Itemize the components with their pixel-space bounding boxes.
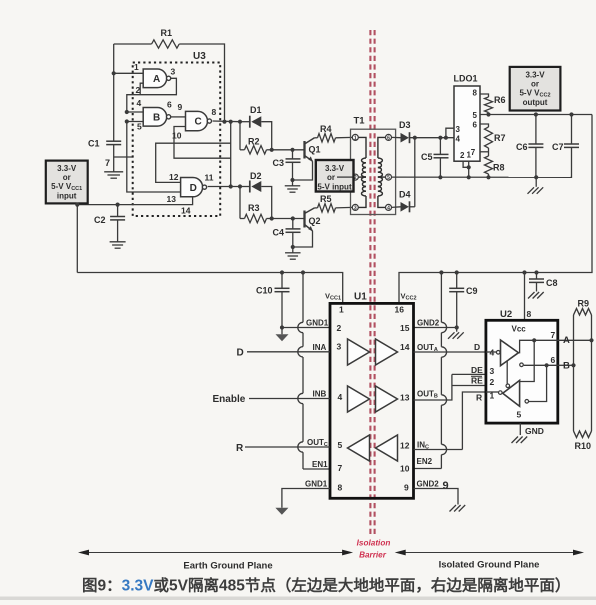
node junction A term xyxy=(589,338,593,342)
svg-text:14: 14 xyxy=(181,206,191,216)
node junction emitter Q1 xyxy=(290,178,294,182)
svg-text:C7: C7 xyxy=(552,142,564,152)
svg-text:2: 2 xyxy=(337,323,342,333)
capacitor C2 xyxy=(110,216,125,218)
wire Q2 emitter to gnd xyxy=(293,231,313,247)
wire left vertical from top rail to C1 xyxy=(113,44,115,141)
svg-text:R: R xyxy=(476,393,482,403)
resistor R7 xyxy=(485,127,493,148)
wire C3 gnd stub xyxy=(292,180,294,186)
wire R2 stub right xyxy=(267,149,272,151)
wire C9 bottom lead xyxy=(456,292,458,328)
svg-text:16: 16 xyxy=(395,305,405,315)
wire VCC2 right rail xyxy=(399,115,592,304)
svg-text:1: 1 xyxy=(467,151,472,160)
wire R5 to T1 pin3 xyxy=(336,206,353,209)
wire R7-R8 junction xyxy=(488,148,490,156)
resistor R10 xyxy=(574,431,592,438)
resistor R1 xyxy=(152,40,180,48)
node junction C3 tap xyxy=(290,148,294,152)
svg-text:D2: D2 xyxy=(250,171,262,181)
U2 box xyxy=(486,320,558,423)
T1 pin circles xyxy=(352,134,358,140)
wire D1 cathode lead xyxy=(240,121,250,123)
3.3-V/5-V VCC2 output box xyxy=(510,67,561,111)
svg-text:GND1: GND1 xyxy=(306,319,329,328)
svg-text:Isolated Ground Plane: Isolated Ground Plane xyxy=(439,560,540,571)
resistor R9 xyxy=(574,309,592,316)
diode D2 xyxy=(249,181,251,193)
wire U2 gnd xyxy=(519,423,521,435)
node junction B riser xyxy=(545,363,549,367)
resistor R4 xyxy=(318,134,336,142)
wire A bus xyxy=(558,339,592,341)
svg-text:C4: C4 xyxy=(273,228,285,238)
svg-text:9: 9 xyxy=(404,483,409,493)
ground for C2 xyxy=(110,241,126,243)
wire DE xyxy=(452,373,507,375)
svg-text:1: 1 xyxy=(134,62,139,72)
svg-text:U2: U2 xyxy=(500,309,512,320)
wire gate B output 6 to gate C input 9 xyxy=(170,116,185,118)
svg-text:C2: C2 xyxy=(94,215,106,225)
wire gate B input 5 xyxy=(127,121,143,123)
svg-text:5: 5 xyxy=(137,122,142,132)
wire C8 bottom lead xyxy=(536,282,538,291)
node junction LDO gnd xyxy=(467,175,471,179)
wire GND1 pin8 xyxy=(282,489,330,508)
wire LDO pin1 xyxy=(468,161,470,177)
svg-text:3.3-V: 3.3-V xyxy=(57,164,77,173)
capacitor C5 xyxy=(434,153,449,155)
wire R2 stub left xyxy=(240,149,245,151)
svg-text:3: 3 xyxy=(337,342,342,352)
T1 primary winding xyxy=(358,137,366,207)
node junction C5 top xyxy=(438,136,442,140)
node junction A riser xyxy=(532,338,536,342)
wire top rail with R1 left segment xyxy=(114,43,152,45)
wire C4 gnd stub xyxy=(292,247,294,253)
svg-text:13: 13 xyxy=(400,393,410,403)
ground C10 triangle xyxy=(281,328,283,335)
wire LDO pin7 xyxy=(480,151,489,153)
node junction C2 tap xyxy=(116,203,120,207)
3.3-V/5-V input box xyxy=(316,160,354,192)
wire D2 cathode lead xyxy=(240,186,250,188)
wire R out of U2 xyxy=(462,392,486,450)
ground pin15 xyxy=(456,328,458,332)
svg-text:INA: INA xyxy=(313,343,327,352)
svg-text:input: input xyxy=(57,192,77,201)
svg-text:C10: C10 xyxy=(256,286,273,296)
wire pin 14 from gate D bottom xyxy=(77,197,192,205)
wire EN1 vertical xyxy=(302,273,304,323)
svg-text:12: 12 xyxy=(400,441,410,451)
wire C5 bottom lead xyxy=(439,158,441,178)
resistor R6 xyxy=(485,97,493,113)
svg-text:5: 5 xyxy=(387,175,390,181)
node junction C9 top xyxy=(455,270,459,274)
ground for C4 xyxy=(285,252,301,254)
svg-text:C9: C9 xyxy=(466,286,478,296)
wire C10 bottom lead xyxy=(281,292,283,328)
wire gate A feedback output 3 to input 2 xyxy=(127,78,177,112)
svg-text:10: 10 xyxy=(400,464,410,474)
node junction pin4 xyxy=(125,110,129,114)
wire enable vertical U2 xyxy=(506,361,508,384)
svg-text:8: 8 xyxy=(527,309,532,319)
node junction D2 branch xyxy=(238,184,242,188)
svg-text:3.3-V: 3.3-V xyxy=(525,71,545,80)
svg-text:Enable: Enable xyxy=(213,394,246,405)
wire D inside U2 xyxy=(486,351,496,353)
ground for C6 xyxy=(528,187,535,194)
svg-text:9: 9 xyxy=(443,480,449,492)
wire C2 leads xyxy=(117,205,119,217)
svg-text:B: B xyxy=(563,361,570,372)
svg-text:8: 8 xyxy=(212,107,217,117)
gate A of U3 xyxy=(143,69,167,88)
wire R3 left branch xyxy=(239,187,241,219)
wire R6 bottom xyxy=(488,113,490,115)
wire C10 top lead xyxy=(281,273,283,289)
svg-text:4: 4 xyxy=(338,392,343,402)
wire VCC1 down from input box xyxy=(76,205,78,273)
svg-text:9: 9 xyxy=(178,102,183,112)
svg-text:3: 3 xyxy=(490,366,495,376)
gate B of U3 xyxy=(143,108,167,127)
node junction 11-line xyxy=(229,184,233,188)
wire A to receiver xyxy=(520,340,535,381)
capacitor C9 xyxy=(449,287,464,289)
wire C6 bottom lead xyxy=(535,147,537,177)
svg-text:5-V input: 5-V input xyxy=(317,182,352,191)
U2 receiver B input bubble xyxy=(525,400,529,404)
wire gate A input 2 stub xyxy=(140,83,143,95)
ground GND1 pin8 triangle xyxy=(275,508,288,515)
svg-text:7: 7 xyxy=(471,148,476,157)
gate C of U3 xyxy=(186,111,208,130)
resistor R2 xyxy=(245,146,267,154)
U2 receiver triangle xyxy=(503,380,520,406)
svg-text:3: 3 xyxy=(456,125,461,134)
svg-text:C6: C6 xyxy=(516,142,528,152)
wire D1 anode to corner xyxy=(261,122,271,150)
svg-text:14: 14 xyxy=(400,342,410,352)
svg-text:LDO1: LDO1 xyxy=(454,74,478,84)
node junction input box xyxy=(75,203,79,207)
ground GND2 pin9 xyxy=(450,505,457,512)
svg-text:R9: R9 xyxy=(578,299,590,309)
node junction C4 tap xyxy=(291,216,295,220)
wire B to receiver xyxy=(529,365,547,401)
svg-text:R3: R3 xyxy=(248,203,260,213)
capacitor C8 xyxy=(529,278,544,280)
svg-text:EN2: EN2 xyxy=(417,457,433,466)
svg-text:D: D xyxy=(237,347,244,358)
node junction R6 bottom xyxy=(486,112,490,116)
wire RE xyxy=(452,385,506,387)
svg-text:6: 6 xyxy=(551,355,556,365)
wire C4 bottom lead xyxy=(292,232,294,247)
wire LDO pin5 output line xyxy=(480,114,592,116)
gate D of U3 xyxy=(181,178,203,197)
wire INC xyxy=(414,449,463,451)
svg-text:2: 2 xyxy=(490,377,495,387)
svg-text:R: R xyxy=(236,443,244,454)
node junction U2 vcc xyxy=(522,270,526,274)
svg-text:R4: R4 xyxy=(320,124,332,134)
wire T1 pin6 to D3 xyxy=(392,136,401,138)
wire GND1 pin2 xyxy=(282,327,330,329)
3.3-V/5-V VCC1 input box xyxy=(46,161,88,204)
U2 receiver out bubble xyxy=(499,391,503,395)
node junction C10 top xyxy=(280,270,284,274)
transistor Q2 xyxy=(303,211,305,228)
capacitor C10 xyxy=(275,287,290,289)
node junction R2-D1 out xyxy=(270,148,274,152)
wire C9 top lead xyxy=(456,273,458,289)
wire R3 stub left xyxy=(240,218,245,220)
wire C8 top lead xyxy=(536,273,538,280)
wire R to OUTC xyxy=(245,446,330,448)
U3 dashed box xyxy=(133,63,221,217)
ground for C8 xyxy=(528,292,535,299)
diode D1 xyxy=(249,116,251,128)
U1 box xyxy=(330,303,414,498)
ground for C1 xyxy=(104,171,123,173)
svg-text:R5: R5 xyxy=(320,194,332,204)
svg-text:GND: GND xyxy=(525,426,544,436)
node junction pin1-2 xyxy=(467,165,471,169)
svg-text:4: 4 xyxy=(456,135,461,144)
svg-text:11: 11 xyxy=(205,173,214,183)
svg-text:D: D xyxy=(190,183,197,194)
node junction D1 branch xyxy=(238,120,242,124)
wire R4 lead a xyxy=(315,137,318,139)
svg-text:8: 8 xyxy=(473,89,478,98)
svg-text:D3: D3 xyxy=(399,120,411,130)
wire A output net down to gate D pin 13 xyxy=(127,122,181,193)
wire Q1 emitter to gnd xyxy=(293,161,313,180)
U2 driver triangle xyxy=(501,340,519,366)
wire LDO pin3 xyxy=(446,128,454,138)
svg-text:D1: D1 xyxy=(250,105,262,115)
wire T1 pin4 to D4 xyxy=(392,206,401,209)
wire LDO pin2 xyxy=(463,161,469,167)
node junction R8 bottom xyxy=(486,175,490,179)
node junction pin1 xyxy=(112,71,116,75)
svg-text:5: 5 xyxy=(517,410,522,420)
wire EN2 vertical xyxy=(440,273,442,323)
wire gate C input 10 path xyxy=(174,127,231,159)
isolated ground plane arrow xyxy=(397,552,582,554)
node junction pin5 xyxy=(125,119,129,123)
wire C4 top lead xyxy=(292,219,294,229)
svg-text:U1: U1 xyxy=(354,292,367,303)
wire D to INA xyxy=(247,351,330,353)
earth ground plane arrow xyxy=(81,552,351,554)
resistor R8 xyxy=(485,156,493,174)
svg-text:INB: INB xyxy=(313,390,327,399)
svg-text:1: 1 xyxy=(339,305,344,315)
svg-text:R1: R1 xyxy=(161,28,173,38)
wire gate D output 11 line xyxy=(208,186,240,188)
svg-text:Barrier: Barrier xyxy=(359,551,387,560)
svg-text:GND1: GND1 xyxy=(305,480,328,489)
wire driver out B xyxy=(524,364,558,366)
wire D4 out xyxy=(409,206,414,208)
ground U2 xyxy=(512,437,519,444)
wire Q1 base line xyxy=(272,149,305,151)
wire R9 left leg xyxy=(573,315,575,431)
wire top rail right segment xyxy=(179,44,224,122)
svg-text:or: or xyxy=(531,80,539,89)
transistor Q1 xyxy=(303,141,305,159)
wire LDO pin8 to R6 xyxy=(480,94,489,97)
wire C3 top lead xyxy=(292,150,294,159)
wire EN2 xyxy=(414,468,442,470)
svg-text:图9：3.3V或5V隔离485节点（左边是大地地平面，右边是: 图9：3.3V或5V隔离485节点（左边是大地地平面，右边是隔离地平面） xyxy=(82,576,570,595)
svg-text:4: 4 xyxy=(137,98,142,108)
wire pin 1 of U3 gate A xyxy=(114,72,144,74)
svg-text:RE: RE xyxy=(471,376,483,386)
wire EN1 xyxy=(303,468,330,470)
wire GND2 pin9 xyxy=(414,489,459,505)
node junction pin3 branch xyxy=(444,136,448,140)
node junction D3 out xyxy=(413,136,417,140)
svg-text:5: 5 xyxy=(338,440,343,450)
resistor R3 xyxy=(245,214,267,222)
svg-text:or: or xyxy=(63,173,71,182)
wire R3 stub right xyxy=(267,218,272,220)
svg-text:3.3-V: 3.3-V xyxy=(325,164,345,173)
wire R8 bottom xyxy=(488,174,490,177)
svg-text:C: C xyxy=(195,117,202,128)
node junction C6 bottom xyxy=(534,175,538,179)
wire C5 top lead xyxy=(439,138,441,155)
wire R4 to T1 pin1 xyxy=(336,136,353,138)
resistor R5 xyxy=(318,204,336,212)
node junction GND1 xyxy=(280,325,284,329)
svg-text:D: D xyxy=(474,342,480,352)
svg-text:Q2: Q2 xyxy=(309,216,321,226)
svg-text:2: 2 xyxy=(460,151,465,160)
wire OUTA to U2 D xyxy=(414,351,486,353)
svg-text:7: 7 xyxy=(551,330,556,340)
capacitor C1 xyxy=(106,140,121,142)
svg-text:R7: R7 xyxy=(494,133,506,143)
svg-text:GND2: GND2 xyxy=(417,480,440,489)
U2 receiver enable bubble xyxy=(506,384,510,388)
wire B bus xyxy=(558,364,574,366)
wire D3 out xyxy=(409,137,454,139)
node junction C5 bottom xyxy=(438,175,442,179)
svg-text:A: A xyxy=(563,335,570,346)
svg-text:C5: C5 xyxy=(421,152,433,162)
svg-text:3: 3 xyxy=(171,67,176,77)
svg-text:6: 6 xyxy=(473,121,478,130)
wire or to T1 pin2 xyxy=(337,176,353,178)
svg-text:R8: R8 xyxy=(493,163,505,173)
svg-text:5: 5 xyxy=(473,111,478,120)
wire C7 top lead xyxy=(571,115,573,145)
U2 driver input bubble xyxy=(496,351,500,355)
svg-text:6: 6 xyxy=(167,100,172,110)
U1 channel buffers xyxy=(348,339,370,365)
T1 secondary winding xyxy=(378,137,386,207)
node junction C8 top xyxy=(534,270,538,274)
svg-text:B: B xyxy=(153,112,160,123)
node junction emitter Q2 xyxy=(291,245,295,249)
svg-text:or: or xyxy=(327,173,335,182)
wire gate B input 4 xyxy=(127,111,143,113)
node junction EN1 vert xyxy=(301,270,305,274)
wire C6 gnd stub xyxy=(535,177,537,187)
node junction C7 top xyxy=(569,112,573,116)
svg-text:Q1: Q1 xyxy=(309,145,321,155)
svg-text:Earth Ground Plane: Earth Ground Plane xyxy=(183,561,272,572)
svg-text:8: 8 xyxy=(338,483,343,493)
node junction R3-D2 out xyxy=(270,216,274,220)
diode D3 xyxy=(401,133,409,143)
svg-text:GND2: GND2 xyxy=(417,319,440,328)
svg-text:7: 7 xyxy=(105,158,110,168)
svg-text:7: 7 xyxy=(338,463,343,473)
node junction EN2 vert xyxy=(439,270,443,274)
ground for C3 xyxy=(285,185,301,187)
svg-text:3: 3 xyxy=(354,205,357,211)
svg-text:12: 12 xyxy=(169,172,179,182)
svg-text:output: output xyxy=(523,98,548,107)
capacitor C6 xyxy=(528,143,543,145)
wire C7 bottom lead xyxy=(571,147,572,177)
wire R9 right leg xyxy=(591,315,593,431)
wire U2 pin8 vertical xyxy=(524,273,526,321)
wire C1 bottom to ground xyxy=(113,145,115,172)
svg-text:C3: C3 xyxy=(273,158,285,168)
diode D4 xyxy=(401,202,409,212)
wire GND2 pin15 xyxy=(414,327,457,329)
wire OUTB xyxy=(414,374,452,400)
svg-text:R2: R2 xyxy=(248,137,260,147)
U2 driver inv bubble xyxy=(520,363,524,367)
wire T1 pin5 ground line xyxy=(392,176,571,178)
wire gate C output 8 line xyxy=(213,120,240,123)
wire driver out A xyxy=(519,340,558,352)
wire C3 bottom lead xyxy=(292,162,294,180)
node junction 8-line a xyxy=(222,120,226,124)
transformer T1 box xyxy=(351,129,396,214)
svg-text:U3: U3 xyxy=(193,51,206,62)
svg-text:R6: R6 xyxy=(494,95,506,105)
isolation barrier dashed lines xyxy=(370,30,374,536)
node junction 8-line b xyxy=(229,120,233,124)
svg-text:DE: DE xyxy=(471,365,483,375)
wire R2 left branch xyxy=(239,122,241,150)
wire Enable to INB xyxy=(249,398,330,400)
svg-text:C1: C1 xyxy=(88,139,100,149)
capacitor C4 xyxy=(286,228,301,230)
wire cross-couple vertical xyxy=(230,122,232,187)
wire LDO pin6 to R7 xyxy=(480,124,489,127)
svg-text:6: 6 xyxy=(387,135,390,141)
capacitor C3 xyxy=(286,158,301,160)
wire VCC1 rail xyxy=(77,273,342,304)
wire 8 to 12 feedback xyxy=(156,143,231,182)
svg-text:Vcc: Vcc xyxy=(512,325,527,334)
wire rect join vertical xyxy=(414,138,416,207)
